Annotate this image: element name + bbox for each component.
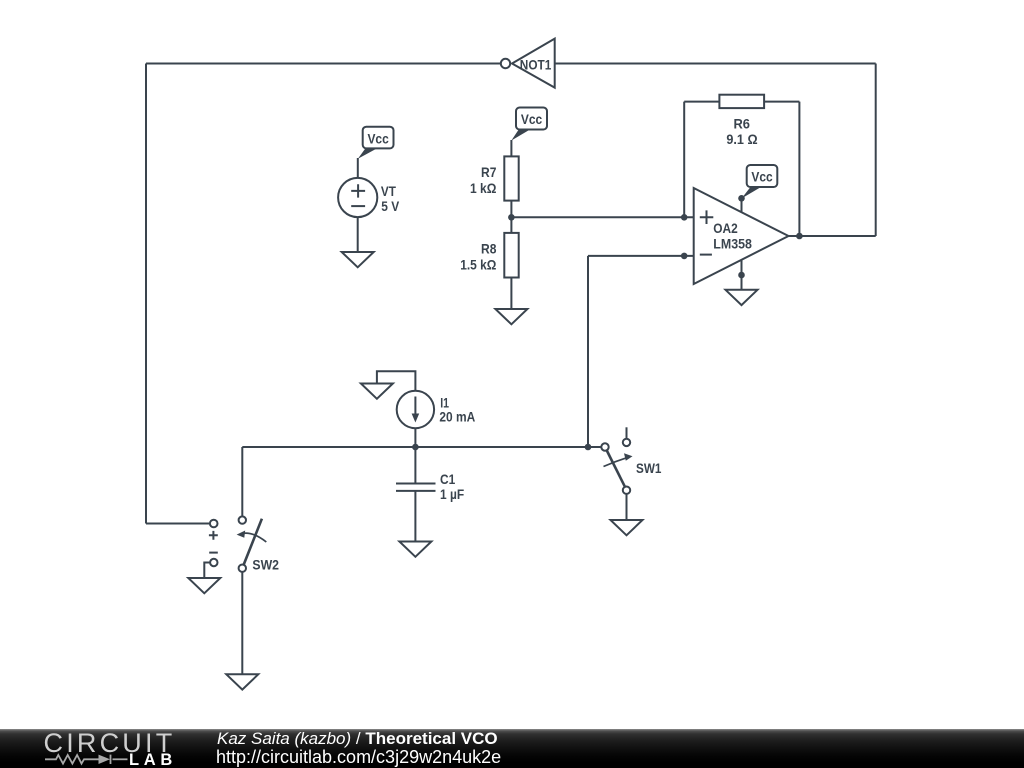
svg-text:1 kΩ: 1 kΩ — [470, 180, 496, 196]
switch SW1 — [601, 427, 661, 494]
power flag Vcc (divider) — [511, 108, 547, 141]
junction — [585, 444, 592, 451]
inverter NOT1 — [501, 39, 555, 88]
wire — [241, 447, 243, 516]
junction — [796, 233, 803, 240]
wire — [146, 523, 210, 525]
svg-text:1 µF: 1 µF — [440, 486, 464, 502]
svg-text:5 V: 5 V — [381, 198, 399, 214]
wire — [741, 275, 743, 290]
svg-text:R7: R7 — [481, 164, 497, 180]
resistor R8 — [460, 233, 519, 278]
wire — [242, 446, 588, 448]
svg-text:OA2: OA2 — [713, 220, 738, 236]
capacitor C1 — [396, 447, 464, 542]
ground — [726, 290, 758, 305]
svg-text:9.1 Ω: 9.1 Ω — [726, 131, 757, 147]
wire — [684, 101, 719, 103]
wire — [377, 371, 416, 391]
junction — [412, 444, 419, 451]
svg-text:VT: VT — [381, 183, 396, 199]
wire — [414, 428, 416, 447]
svg-text:1.5 kΩ: 1.5 kΩ — [460, 256, 496, 272]
svg-text:R6: R6 — [733, 115, 750, 131]
junction — [681, 253, 688, 260]
wire — [875, 64, 877, 237]
wire — [510, 201, 512, 233]
wire — [511, 216, 693, 218]
svg-text:R8: R8 — [481, 241, 497, 257]
svg-text:20 mA: 20 mA — [439, 409, 475, 425]
terminal - — [210, 559, 217, 566]
power flag Vcc (VT) — [358, 127, 394, 159]
svg-text:C1: C1 — [440, 471, 455, 487]
svg-text:SW1: SW1 — [636, 460, 662, 476]
svg-text:Vcc: Vcc — [521, 111, 542, 127]
ground — [226, 674, 258, 689]
wire — [798, 102, 800, 236]
wire — [145, 64, 147, 524]
CircuitLab logo — [44, 728, 176, 759]
wire — [789, 235, 876, 237]
wire — [555, 63, 876, 65]
wire — [357, 217, 359, 252]
svg-text:Vcc: Vcc — [751, 169, 772, 185]
ground — [399, 542, 431, 557]
ground — [611, 520, 643, 535]
resistor R6 — [719, 95, 764, 148]
wire — [683, 102, 685, 218]
wire — [241, 572, 243, 674]
ground — [361, 384, 393, 399]
wire — [764, 101, 799, 103]
voltage source VT — [338, 178, 400, 217]
current source I1 — [397, 391, 476, 428]
ground — [188, 578, 220, 593]
svg-text:LM358: LM358 — [713, 235, 752, 251]
ground — [495, 309, 527, 324]
resistor R7 — [470, 156, 519, 200]
op-amp OA2 — [694, 188, 789, 284]
power flag Vcc (op-amp) — [742, 165, 778, 199]
switch SW2 — [237, 516, 280, 572]
wire — [588, 446, 601, 448]
wire — [510, 140, 512, 156]
wire — [587, 256, 589, 447]
footer bar — [0, 729, 1024, 768]
terminal + — [209, 520, 218, 553]
wire — [204, 563, 210, 579]
ground — [342, 252, 374, 267]
svg-text:SW2: SW2 — [252, 557, 279, 573]
wire — [357, 158, 359, 178]
junction — [681, 214, 688, 221]
wire — [146, 63, 501, 65]
wire — [510, 278, 512, 310]
svg-text:Vcc: Vcc — [367, 131, 388, 147]
junction — [508, 214, 515, 221]
svg-text:NOT1: NOT1 — [520, 56, 552, 72]
wire — [626, 494, 628, 520]
wire — [588, 255, 694, 257]
